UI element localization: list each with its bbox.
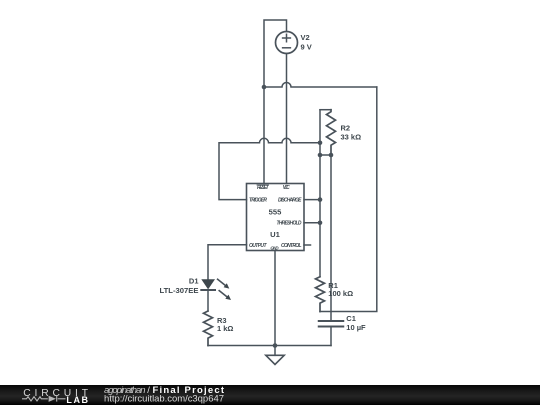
CircuitLab logo diode glyph [49, 396, 56, 402]
svg-text:DISCHARGE: DISCHARGE [278, 198, 302, 204]
node B junction dot (trigger joins threshold net) [318, 141, 323, 146]
CircuitLab logo wordmark [23, 388, 88, 405]
wire: jog between node C and node D [320, 154, 331, 156]
wire: TRIGGER loop left-up-right with hops, to node B [219, 138, 320, 199]
wire: bottom ground rail [208, 345, 331, 347]
wire: V2 minus terminal down to VCC pin of U1 [286, 54, 288, 184]
svg-text:LTL-307EE: LTL-307EE [160, 286, 199, 295]
svg-text:33 kΩ: 33 kΩ [341, 132, 362, 141]
wire: THRESHOLD pin stub [304, 222, 320, 224]
svg-text:1 kΩ: 1 kΩ [217, 324, 233, 333]
wire: top rail from node A to right feedback, hop over VCC wire [264, 83, 377, 87]
svg-text:10 µF: 10 µF [346, 323, 366, 332]
wire: R2 bottom net down to capacitor C1 top plate [330, 155, 332, 320]
wire: OUTPUT pin left and down to LED anode [208, 245, 247, 279]
wire: CONTROL pin stub (unconnected) [304, 244, 311, 246]
label D1 value [160, 277, 199, 295]
svg-text:GND: GND [270, 245, 279, 250]
label 555 [269, 207, 282, 238]
svg-text:OUTPUT: OUTPUT [249, 243, 267, 249]
svg-text:CONTROL: CONTROL [281, 243, 302, 249]
resistor R2 [327, 110, 336, 155]
svg-text:http://circuitlab.com/c3qp647: http://circuitlab.com/c3qp647 [104, 394, 224, 405]
svg-text:RESET: RESET [257, 185, 270, 191]
svg-text:THRESHOLD: THRESHOLD [277, 220, 302, 226]
voltage source V2 [276, 32, 298, 54]
capacitor C1 [319, 321, 344, 327]
wire: LED cathode down to R3 [207, 290, 209, 311]
LED D1 [201, 279, 231, 300]
svg-text:C1: C1 [346, 314, 356, 323]
CircuitLab logo wire-resistor glyph [22, 396, 66, 402]
svg-text:LAB: LAB [66, 395, 88, 405]
svg-text:U1: U1 [270, 230, 280, 239]
wire: V2 plus terminal loop up-left down to node A and RESET pin [264, 20, 287, 184]
wire: vertical net x=320 from R2 top jog down to R1 top [319, 110, 321, 277]
resistor R3 [204, 311, 213, 346]
footer bar [0, 385, 540, 405]
svg-text:100 kΩ: 100 kΩ [328, 289, 353, 298]
label R1 value [328, 281, 353, 298]
node: discharge junction dot [318, 197, 323, 202]
node D junction dot [329, 153, 334, 158]
resistor R1 [316, 277, 325, 312]
label V2 value [301, 33, 312, 51]
label R3 value [217, 316, 233, 333]
wire: U1 GND pin down to rail [274, 251, 276, 346]
wire: DISCHARGE pin stub [304, 199, 320, 201]
svg-text:R2: R2 [341, 123, 351, 132]
555 timer IC U1 body [247, 184, 305, 251]
node A junction dot (V+ rail) [262, 85, 267, 90]
node: threshold junction dot [318, 221, 323, 226]
svg-text:555: 555 [269, 207, 282, 216]
svg-text:9 V: 9 V [301, 43, 312, 52]
wire: C1 bottom to ground rail [330, 327, 332, 346]
svg-text:TRIGGER: TRIGGER [249, 198, 267, 204]
wire: right feedback vertical down and jog left to R1 bottom [320, 87, 377, 312]
label RESET overline [257, 184, 269, 186]
ground [266, 346, 284, 365]
footer title text [104, 385, 225, 405]
svg-text:VCC: VCC [283, 185, 290, 191]
node: ground junction dot [273, 343, 278, 348]
node C junction dot [318, 153, 323, 158]
svg-text:V2: V2 [301, 33, 310, 42]
svg-text:D1: D1 [189, 277, 199, 286]
label R2 value [341, 123, 362, 141]
label C1 value [346, 314, 366, 332]
wire: jog connecting x320 net to R2 top [320, 109, 331, 111]
label U1 pin names [249, 185, 302, 250]
